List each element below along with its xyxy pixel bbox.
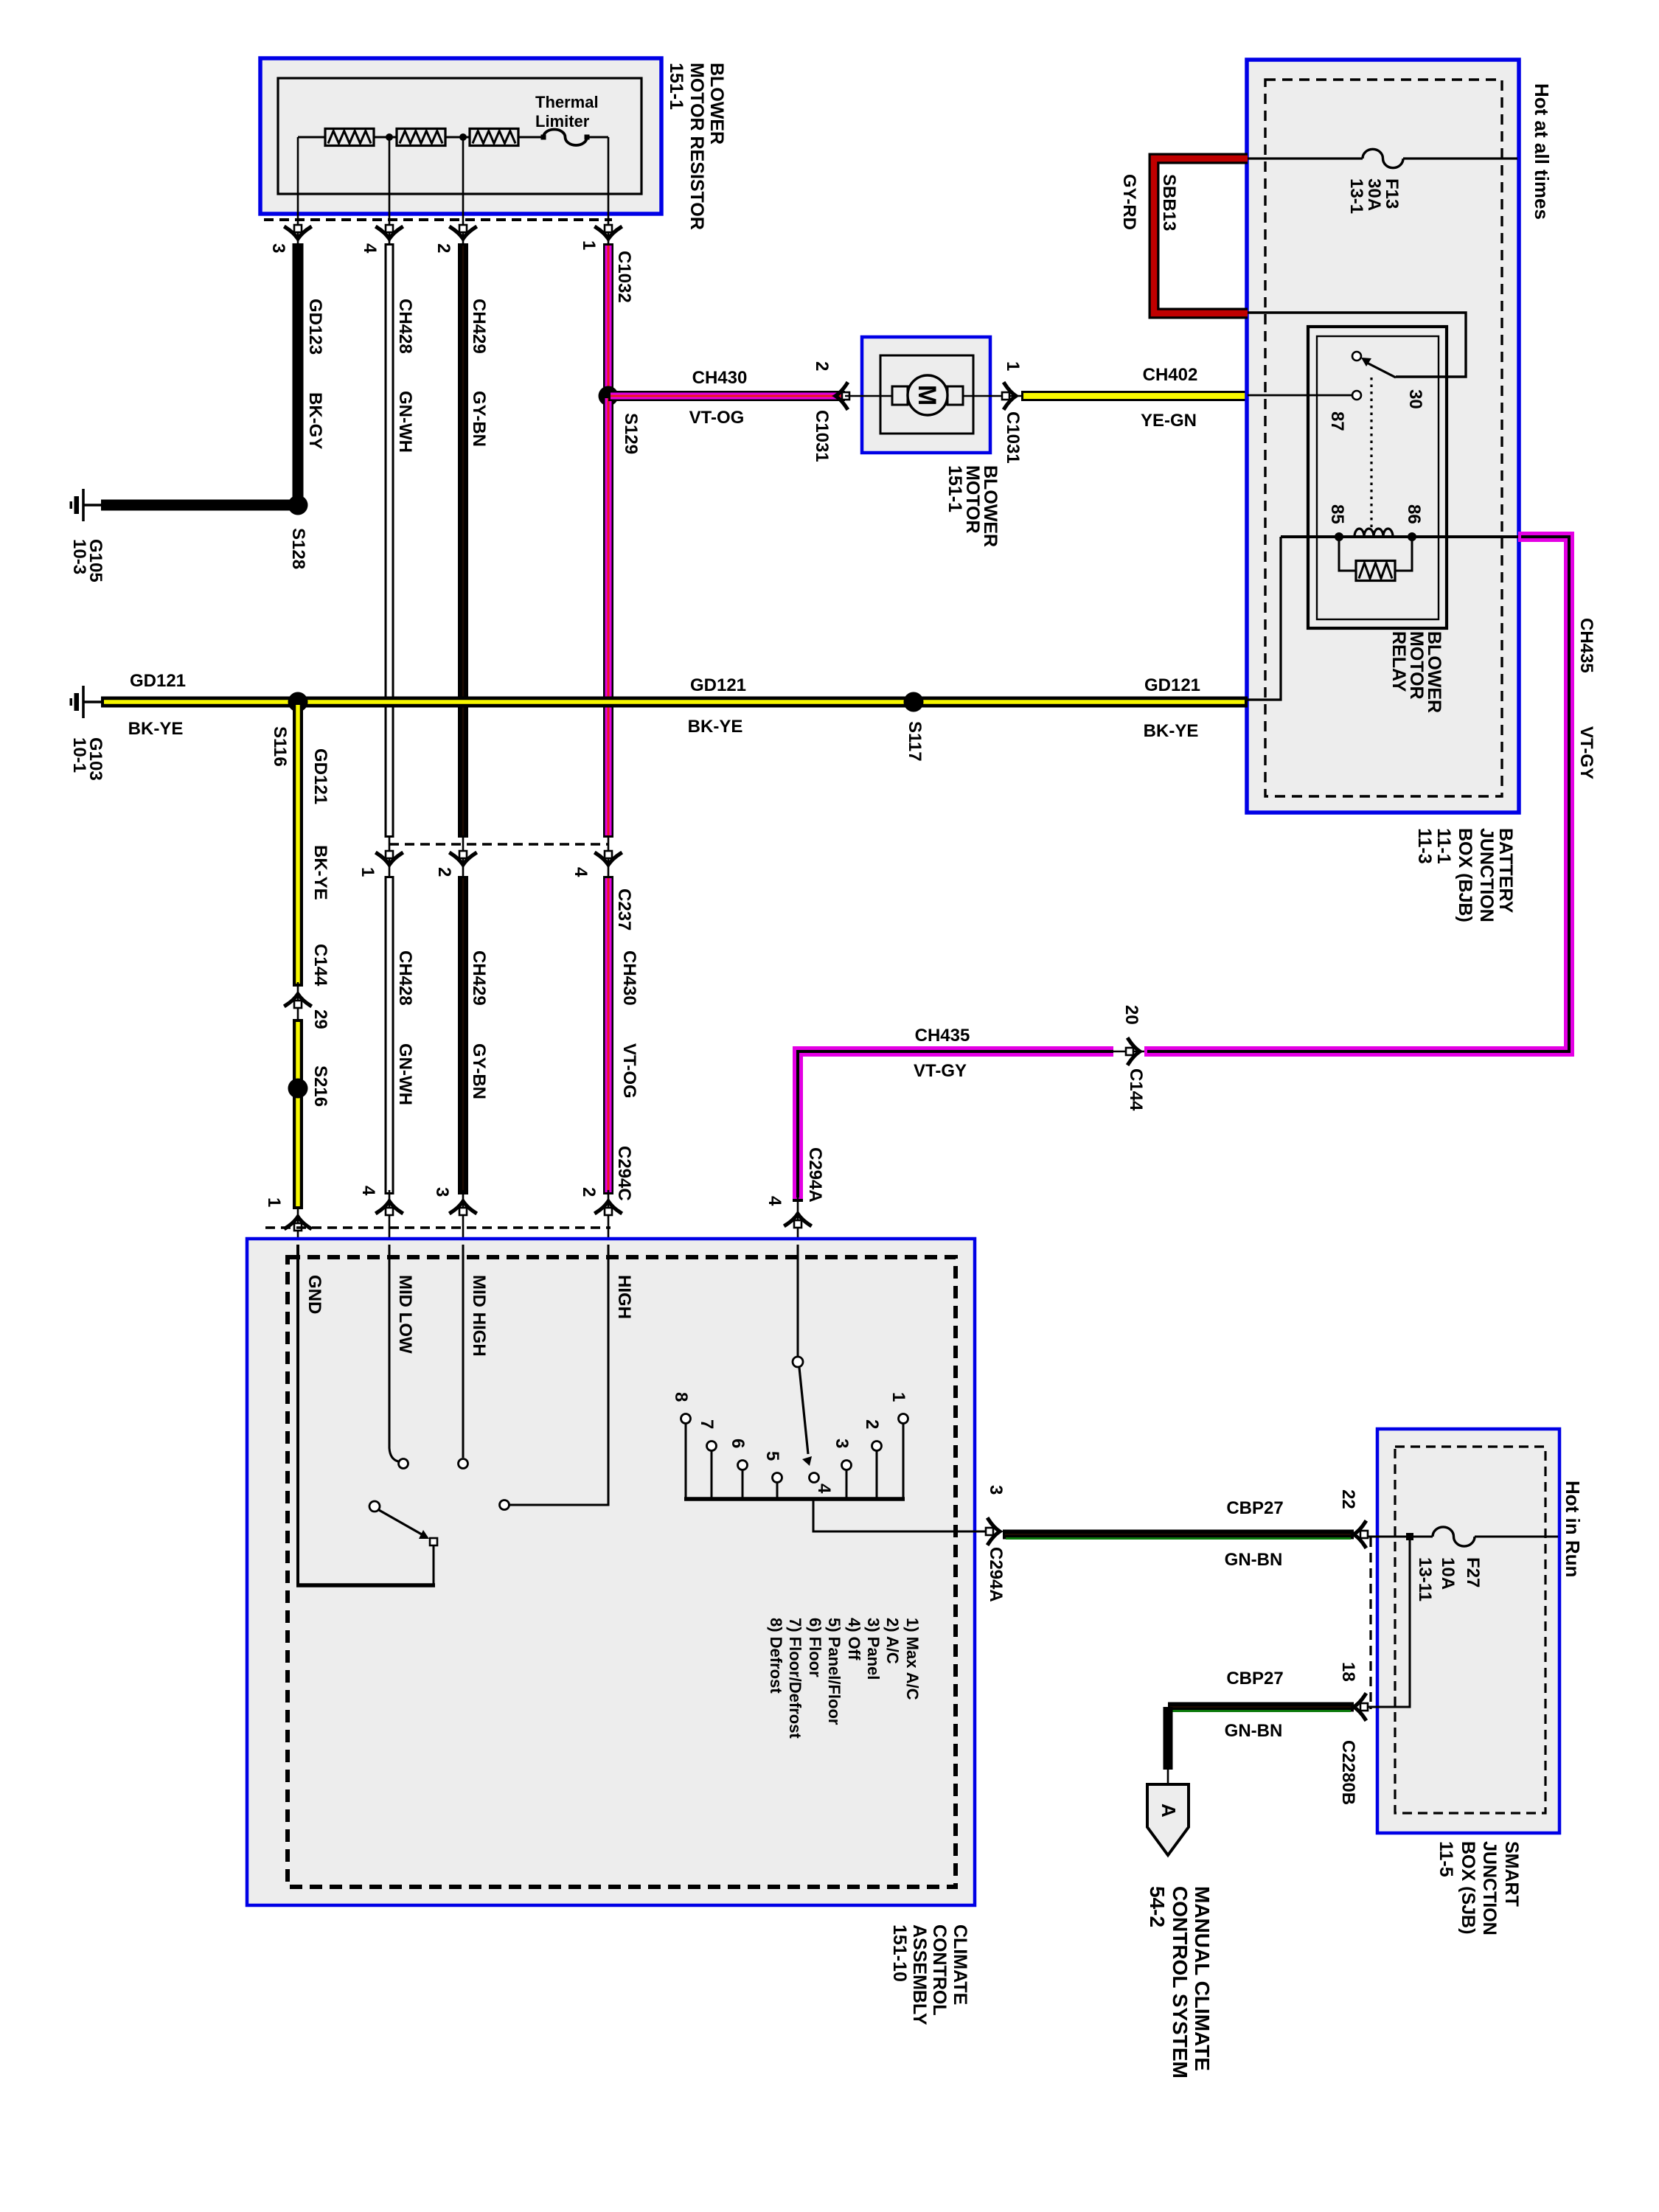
connector C294C arrow pin 4 [378, 1201, 402, 1215]
svg-text:ASSEMBLY: ASSEMBLY [909, 1924, 930, 2025]
motor brush left [892, 386, 908, 405]
svg-text:GD123: GD123 [305, 299, 325, 355]
svg-text:C1031: C1031 [812, 410, 832, 462]
fuse F13 feed line [1247, 157, 1363, 159]
svg-text:Thermal: Thermal [535, 93, 599, 111]
relay contact 30 circle [1352, 352, 1361, 361]
mode selector blade [799, 1368, 808, 1454]
svg-text:5: 5 [762, 1451, 782, 1461]
connector arrow 1 C1031 motor right [1002, 384, 1016, 408]
svg-text:11-1: 11-1 [1433, 828, 1454, 864]
svg-text:2: 2 [434, 867, 454, 877]
mode contact 6 [738, 1461, 748, 1470]
svg-text:C144: C144 [1126, 1068, 1146, 1111]
svg-text:S128: S128 [288, 528, 308, 569]
resistor R2 [397, 129, 445, 146]
smart junction box (SJB) [1377, 1429, 1559, 1833]
svg-text:CH435: CH435 [1576, 618, 1596, 673]
mode contact 5 [773, 1473, 782, 1483]
svg-text:CONTROL: CONTROL [929, 1924, 950, 2016]
connector C294C arrow pin 2 [597, 1201, 621, 1215]
wire tap pin 1 vertical [608, 137, 610, 246]
relay coil [1354, 529, 1393, 537]
wire stem to connector A [1167, 1766, 1169, 1786]
connector C144 arrow pin 29 [286, 994, 310, 1008]
blower motor relay inner rect [1317, 336, 1439, 619]
wire stem C294C pin2 [608, 1190, 610, 1246]
svg-text:BOX (BJB): BOX (BJB) [1455, 828, 1475, 922]
svg-text:SBB13: SBB13 [1159, 174, 1179, 231]
svg-text:11-5: 11-5 [1436, 1841, 1456, 1877]
svg-text:CH429: CH429 [469, 950, 489, 1006]
blower motor resistor inner box [278, 78, 641, 194]
mode selector bus bar [684, 1497, 905, 1501]
wire stem C294C pin4 [389, 1190, 391, 1246]
SJB inner dashed box [1395, 1447, 1545, 1813]
svg-text:CH430: CH430 [692, 368, 748, 388]
svg-text:CBP27: CBP27 [1226, 1498, 1283, 1518]
wire stem C237 pin1 [389, 838, 391, 879]
svg-text:MID HIGH: MID HIGH [469, 1275, 489, 1357]
wire GD121 BK-YE horizontal [101, 697, 1248, 708]
svg-text:A: A [1158, 1804, 1180, 1818]
svg-text:Hot in Run: Hot in Run [1562, 1481, 1584, 1577]
MID LOW contact circle [399, 1459, 408, 1469]
ground G105 symbol [84, 504, 101, 507]
wire CH430 VT-OG horizontal [608, 391, 845, 401]
svg-text:GD121: GD121 [310, 748, 330, 804]
svg-text:C294A: C294A [805, 1147, 825, 1203]
svg-text:1: 1 [264, 1197, 284, 1207]
connector SJB pin 22 arrow [1354, 1523, 1368, 1547]
wire through motor [845, 395, 1021, 397]
wire resistor network horizontal [298, 136, 325, 139]
svg-text:C1032: C1032 [614, 251, 634, 303]
wire C1032 CH430 VT-OG vertical upper [603, 243, 613, 396]
thermal limiter element [543, 130, 587, 146]
mode selector pivot circle [793, 1357, 803, 1367]
svg-text:4: 4 [814, 1484, 834, 1494]
svg-text:3: 3 [832, 1439, 852, 1448]
junction S216 [288, 1079, 308, 1099]
svg-text:11-3: 11-3 [1414, 828, 1435, 864]
svg-text:YE-GN: YE-GN [1141, 411, 1197, 431]
MID HIGH contact circle [459, 1459, 468, 1469]
wire stem C294C pin3 [462, 1190, 465, 1246]
connector C294C arrow pin 3 [451, 1201, 476, 1215]
wire tap pin 3 vertical [297, 137, 299, 246]
svg-text:5) Panel/Floor: 5) Panel/Floor [825, 1618, 844, 1725]
svg-text:4: 4 [571, 867, 591, 877]
mode contact 4 circle [810, 1473, 819, 1483]
svg-text:GN-BN: GN-BN [1225, 1550, 1283, 1570]
svg-text:10-1: 10-1 [69, 737, 89, 773]
wire GND internal [296, 1245, 299, 1584]
svg-text:151-1: 151-1 [945, 465, 965, 512]
svg-text:2: 2 [812, 361, 832, 371]
relay contact 87 circle [1352, 391, 1361, 400]
svg-text:RELAY: RELAY [1388, 631, 1409, 692]
blower motor box [862, 337, 990, 453]
wire F27 to pin 18 [1364, 1537, 1410, 1707]
wire stem C144 [297, 982, 299, 1023]
svg-text:C294A: C294A [986, 1547, 1006, 1602]
svg-text:S129: S129 [621, 413, 641, 454]
relay parallel resistor leads [1339, 537, 1356, 571]
svg-text:CLIMATE: CLIMATE [950, 1924, 970, 2005]
connector C237 arrow pin 2 [451, 851, 476, 865]
svg-text:CH429: CH429 [469, 299, 489, 354]
ground G103 symbol [84, 700, 101, 703]
svg-text:85: 85 [1327, 504, 1347, 524]
svg-text:3: 3 [268, 243, 288, 253]
wire GD121 BK-YE vertical S116 upper [293, 702, 303, 987]
svg-text:4) Off: 4) Off [845, 1618, 863, 1660]
connector C237 arrow pin 1 [378, 851, 402, 865]
connector C144 arrow pin 20 [1126, 1040, 1140, 1064]
svg-text:C237: C237 [614, 888, 634, 931]
svg-text:C144: C144 [310, 944, 330, 987]
wire mode output internal [813, 1499, 994, 1531]
svg-text:1: 1 [358, 867, 378, 877]
svg-text:GN-WH: GN-WH [395, 391, 415, 453]
wire CH435 VT-GY from relay [1110, 1051, 1144, 1053]
svg-text:S116: S116 [270, 726, 290, 767]
svg-text:1) Max A/C: 1) Max A/C [903, 1618, 922, 1700]
svg-text:JUNCTION: JUNCTION [1479, 1841, 1500, 1935]
svg-text:GY-BN: GY-BN [469, 391, 489, 447]
svg-text:BATTERY: BATTERY [1495, 828, 1516, 914]
svg-text:7) Floor/Defrost: 7) Floor/Defrost [786, 1618, 804, 1739]
svg-text:CH430: CH430 [619, 950, 639, 1006]
wire GD121 BK-YE vertical S216 lower [293, 1019, 303, 1209]
wire tap pin 2 vertical [462, 137, 465, 246]
blower motor resistor 151-1 outer box [260, 58, 661, 214]
connector dashed boundary above climate box [265, 1226, 611, 1228]
svg-text:86: 86 [1404, 504, 1424, 524]
svg-text:4: 4 [360, 243, 380, 254]
climate control inner dashed box [288, 1257, 956, 1887]
svg-text:6) Floor: 6) Floor [806, 1618, 824, 1677]
svg-text:29: 29 [310, 1009, 330, 1029]
svg-text:151-10: 151-10 [889, 1924, 910, 1982]
svg-text:22: 22 [1338, 1489, 1358, 1509]
wire relay 85 to GD121 [1248, 537, 1281, 700]
svg-text:BK-GY: BK-GY [305, 392, 325, 449]
connector climate pin 3 arrow [986, 1520, 1000, 1544]
wire MID HIGH internal [462, 1245, 465, 1458]
svg-text:MOTOR RESISTOR: MOTOR RESISTOR [686, 63, 707, 230]
svg-text:M: M [913, 385, 941, 406]
svg-text:BK-YE: BK-YE [1144, 721, 1199, 741]
svg-text:S216: S216 [310, 1065, 330, 1107]
connector pin arrow 1 [597, 225, 621, 239]
mode contact 1 [899, 1414, 908, 1424]
svg-text:HIGH: HIGH [614, 1275, 634, 1319]
wire ground G105 horizontal [101, 500, 298, 511]
svg-text:20: 20 [1121, 1005, 1141, 1025]
connector pin arrow 3 [286, 225, 310, 239]
svg-text:MANUAL CLIMATE: MANUAL CLIMATE [1191, 1886, 1214, 2071]
svg-text:18: 18 [1338, 1662, 1358, 1682]
connector climate pin 1 arrow [286, 1217, 310, 1231]
svg-text:GD121: GD121 [690, 675, 746, 695]
switch GND contact square [430, 1538, 437, 1545]
connector pin arrow 4 [378, 225, 402, 239]
svg-text:2: 2 [434, 243, 453, 253]
mode contact 2 [872, 1441, 882, 1451]
node tap junction at R1-R2 [386, 133, 393, 141]
svg-text:13-11: 13-11 [1415, 1557, 1435, 1601]
svg-text:C2280B: C2280B [1338, 1740, 1358, 1805]
svg-text:87: 87 [1327, 411, 1347, 431]
svg-text:8) Defrost: 8) Defrost [767, 1618, 785, 1694]
relay parallel resistor [1356, 561, 1395, 581]
svg-text:BK-YE: BK-YE [128, 719, 184, 739]
svg-text:CBP27: CBP27 [1226, 1669, 1283, 1688]
motor M circle [908, 375, 947, 415]
svg-text:1: 1 [579, 240, 599, 250]
connector C294A arrow pin 4 [786, 1214, 810, 1228]
svg-text:4: 4 [765, 1196, 785, 1206]
svg-text:VT-OG: VT-OG [619, 1043, 639, 1099]
svg-text:S117: S117 [905, 721, 925, 762]
svg-text:VT-OG: VT-OG [689, 408, 745, 428]
svg-text:F27: F27 [1463, 1557, 1483, 1587]
junction S116 [288, 692, 308, 712]
svg-text:CONTROL SYSTEM: CONTROL SYSTEM [1169, 1886, 1192, 2079]
svg-text:2: 2 [579, 1187, 599, 1197]
svg-text:GY-RD: GY-RD [1119, 174, 1139, 230]
svg-text:30: 30 [1405, 389, 1425, 409]
svg-text:MID LOW: MID LOW [395, 1275, 415, 1354]
svg-text:GD121: GD121 [1144, 675, 1200, 695]
svg-text:6: 6 [728, 1439, 748, 1448]
svg-text:3) Panel: 3) Panel [864, 1618, 883, 1680]
wire relay coil line [1281, 535, 1518, 538]
svg-text:13-1: 13-1 [1346, 178, 1366, 214]
wire fuse F27 feed [1364, 1536, 1433, 1538]
svg-text:C1031: C1031 [1003, 411, 1023, 464]
svg-text:1: 1 [1003, 361, 1023, 371]
mode contact 7 [707, 1441, 717, 1451]
svg-text:7: 7 [697, 1419, 717, 1429]
svg-text:GD121: GD121 [130, 671, 186, 691]
svg-text:10-3: 10-3 [69, 539, 89, 574]
svg-text:C294C: C294C [614, 1146, 634, 1201]
svg-text:CH402: CH402 [1143, 365, 1198, 385]
fan switch blade [379, 1510, 422, 1534]
connector A symbol [1147, 1784, 1189, 1855]
wire relay 30 feed [1248, 313, 1466, 377]
relay coil terminal 86 junction [1408, 532, 1416, 541]
node tap junction at R2-R3 [459, 133, 467, 141]
relay coil terminal 85 junction [1335, 532, 1343, 541]
wire stem C237 pin2 [462, 838, 465, 879]
svg-text:GY-BN: GY-BN [469, 1043, 489, 1099]
wire relay 87 to CH402 [1248, 394, 1352, 397]
svg-text:GN-BN: GN-BN [1225, 1721, 1283, 1741]
resistor R1 [325, 129, 374, 146]
climate control assembly box [247, 1239, 975, 1905]
mode contact 8 [681, 1414, 691, 1424]
svg-text:CH428: CH428 [395, 299, 415, 354]
svg-text:10A: 10A [1438, 1557, 1458, 1590]
blower motor inner rect [880, 355, 973, 434]
battery junction box (BJB) [1247, 60, 1519, 813]
svg-text:2: 2 [862, 1419, 882, 1429]
svg-text:BK-YE: BK-YE [688, 717, 743, 737]
svg-text:30A: 30A [1364, 178, 1384, 211]
svg-text:3: 3 [986, 1485, 1006, 1495]
svg-text:151-1: 151-1 [666, 63, 686, 110]
relay blade 30-87 [1366, 362, 1396, 378]
svg-text:CH428: CH428 [395, 950, 415, 1006]
blower motor relay outer rect [1308, 327, 1447, 628]
wire stem C294A pin4 [797, 1196, 799, 1246]
junction S128 [288, 495, 308, 515]
HIGH contact circle [500, 1500, 509, 1510]
wire mode selector feed internal [797, 1245, 799, 1356]
connector pin arrow 2 [451, 225, 476, 239]
resistor R3 [470, 129, 518, 146]
svg-text:Limiter: Limiter [535, 112, 590, 131]
wire CH402 YE-GN horizontal [1021, 391, 1248, 401]
svg-text:BK-YE: BK-YE [310, 845, 330, 900]
svg-text:3: 3 [432, 1187, 452, 1197]
junction S129 [599, 386, 619, 406]
wire CH429 GY-BN vertical lower [458, 876, 468, 1194]
svg-text:JUNCTION: JUNCTION [1476, 828, 1497, 922]
fuse F13 element [1363, 149, 1403, 167]
wire MID LOW internal [389, 1245, 398, 1461]
svg-text:F13: F13 [1382, 178, 1402, 209]
svg-text:Hot at all times: Hot at all times [1531, 83, 1553, 220]
wire stem C237 pin4 [608, 838, 610, 879]
wire CH430 VT-OG vertical lower [603, 396, 613, 838]
svg-text:SMART: SMART [1501, 1841, 1522, 1907]
fan switch blade pivot circle [369, 1501, 380, 1512]
connector C237 arrow pin 4 [597, 851, 621, 865]
connector C237 dashed boundary [389, 843, 609, 845]
svg-text:4: 4 [358, 1186, 378, 1196]
motor brush right [947, 386, 963, 405]
wire CH428 GN-WH vertical upper [385, 243, 394, 838]
connector SJB pin 18 arrow [1354, 1695, 1368, 1719]
svg-text:GN-WH: GN-WH [395, 1043, 415, 1105]
connector C1032 dashed boundary [264, 218, 612, 221]
svg-text:GND: GND [305, 1275, 324, 1314]
svg-text:8: 8 [671, 1392, 691, 1402]
wire HIGH internal [509, 1245, 608, 1505]
junction square F27 [1406, 1533, 1413, 1540]
relay dotted actuator line [1370, 378, 1372, 527]
svg-text:VT-GY: VT-GY [1576, 726, 1596, 779]
svg-text:CH435: CH435 [915, 1026, 970, 1046]
mode contact 3 [842, 1461, 852, 1470]
svg-text:BLOWER: BLOWER [706, 63, 727, 145]
wire GD123 BK-GY vertical [293, 243, 304, 505]
wire CH428 GN-WH vertical lower [385, 876, 394, 1194]
svg-text:BOX (SJB): BOX (SJB) [1458, 1841, 1478, 1934]
wire tap pin 4 vertical [389, 137, 391, 246]
wire CH430 VT-OG vertical lower2 [603, 876, 613, 1194]
fuse F27 element [1433, 1527, 1475, 1546]
svg-text:54-2: 54-2 [1146, 1886, 1169, 1927]
wire SBB13 GY-RD red loop [1154, 159, 1248, 313]
svg-text:VT-GY: VT-GY [914, 1061, 967, 1081]
wire CBP27 GN-BN upper [1003, 1530, 1354, 1540]
SJB connector dashed boundary [1369, 1537, 1371, 1709]
junction S117 [904, 692, 924, 712]
wire CH429 GY-BN vertical upper [458, 243, 468, 838]
BJB inner dashed box [1265, 80, 1502, 796]
svg-text:2) A/C: 2) A/C [883, 1618, 902, 1664]
wire stem climate pin1 [297, 1206, 299, 1246]
wire CBP27 GN-BN lower [1168, 1703, 1354, 1712]
connector arrow 2 C1031 motor left [835, 384, 849, 408]
svg-text:1: 1 [888, 1392, 908, 1402]
